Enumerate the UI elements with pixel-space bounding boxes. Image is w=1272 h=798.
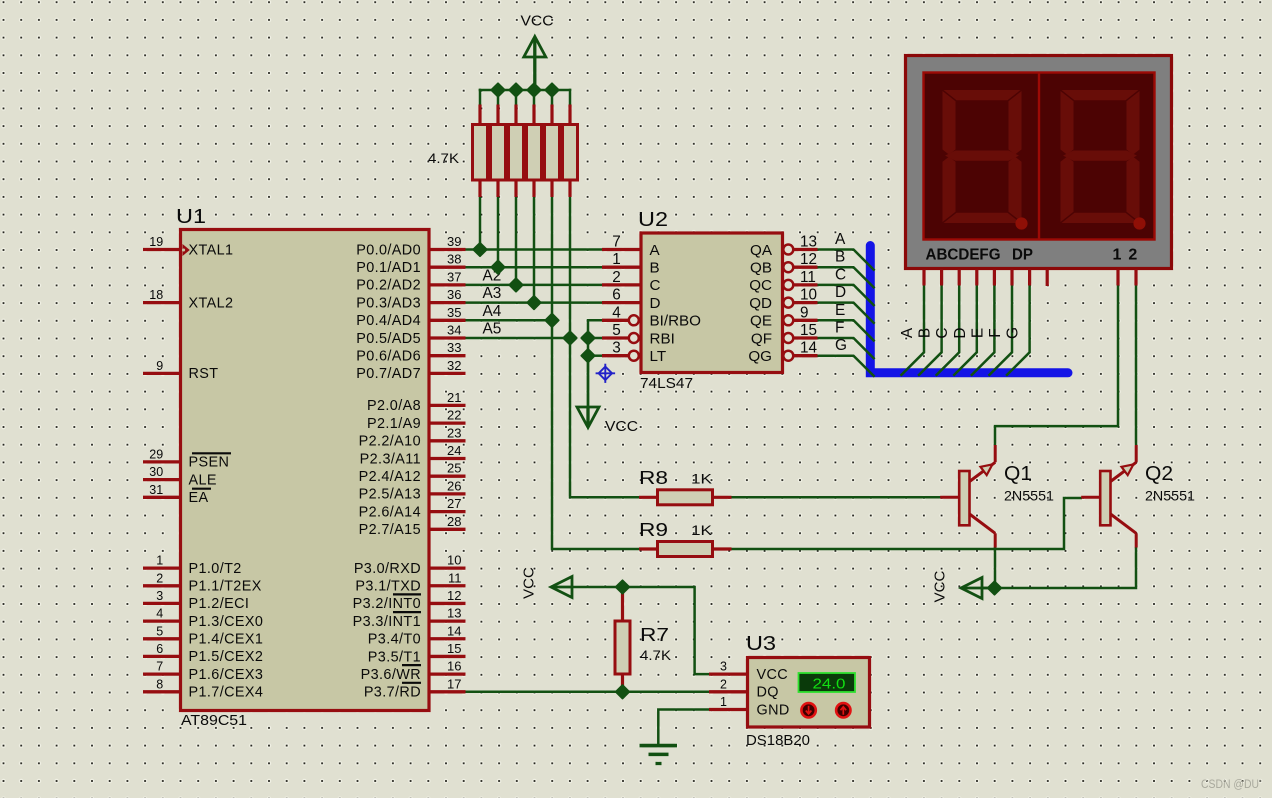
svg-text:17: 17	[447, 676, 461, 691]
pin 39 P0.0/AD0 stub	[429, 248, 466, 251]
svg-text:P2.1/A9: P2.1/A9	[367, 416, 421, 432]
wire pull-up column 2 down to P0.1	[497, 196, 500, 268]
svg-text:B: B	[650, 260, 660, 277]
svg-text:2N5551: 2N5551	[1004, 488, 1054, 504]
svg-text:G: G	[1005, 327, 1022, 339]
svg-text:15: 15	[447, 641, 461, 656]
svg-text:14: 14	[800, 340, 818, 357]
svg-text:B: B	[835, 249, 845, 266]
svg-text:2: 2	[1128, 247, 1137, 264]
svg-text:36: 36	[447, 287, 461, 302]
svg-text:31: 31	[149, 483, 163, 497]
svg-text:P0.5/AD5: P0.5/AD5	[356, 331, 421, 347]
pin 18 XTAL2 stub	[143, 301, 181, 304]
wire Q2 emitter to display pin 2	[1135, 285, 1138, 446]
pin 21 P2.0/A8 stub	[429, 404, 466, 407]
svg-text:4.7K: 4.7K	[640, 647, 672, 663]
svg-text:C: C	[934, 327, 951, 338]
pin 24 P2.3/A11 stub	[429, 457, 466, 460]
pin 9 RST stub	[143, 372, 181, 375]
svg-text:5: 5	[612, 322, 621, 339]
wire BI/RBO to vertical	[588, 320, 604, 408]
microcontroller U1 AT89C51 body	[181, 230, 430, 711]
svg-text:1K: 1K	[691, 471, 713, 487]
svg-text:12: 12	[447, 588, 461, 603]
overline INT1	[393, 611, 421, 613]
svg-text:9: 9	[800, 304, 809, 321]
wire RBI branch	[588, 337, 604, 340]
svg-text:3: 3	[720, 660, 727, 674]
wire pull-up column 1 down to P0.0	[479, 196, 482, 251]
svg-text:Q1: Q1	[1004, 463, 1032, 485]
pin 36 P0.3/AD3 stub	[429, 301, 466, 304]
svg-text:P3.2/INT0: P3.2/INT0	[353, 596, 421, 612]
wire U2 QC to bus	[817, 285, 875, 306]
svg-text:5: 5	[156, 624, 163, 638]
svg-text:4: 4	[156, 607, 163, 621]
decoder U2 74LS47 body	[641, 233, 783, 373]
pin 14 U2 QG stub	[794, 354, 818, 357]
pin 6 P1.5/CEX2 stub	[143, 655, 181, 658]
resistor RN6 4.7K body	[563, 125, 578, 181]
bubble U2 QC	[783, 280, 793, 290]
svg-text:13: 13	[800, 234, 817, 251]
pin 1 U2 B stub	[602, 266, 641, 269]
svg-text:DQ: DQ	[757, 685, 779, 701]
svg-text:QA: QA	[750, 242, 773, 259]
pin 5 U2 RBI stub	[602, 336, 629, 339]
pin 14 P3.4/T0 stub	[429, 637, 466, 640]
button U3 up	[836, 703, 850, 717]
wire U2 QF to bus	[817, 338, 875, 359]
svg-text:28: 28	[447, 514, 461, 529]
svg-text:P2.5/A13: P2.5/A13	[359, 487, 421, 503]
wire display segment A to bus	[901, 285, 925, 376]
svg-text:VCC: VCC	[757, 667, 789, 683]
bubble U2 QD	[783, 298, 793, 308]
svg-text:38: 38	[447, 252, 461, 267]
svg-text:P1.2/ECI: P1.2/ECI	[189, 596, 250, 612]
svg-text:1: 1	[156, 554, 163, 568]
svg-text:6: 6	[156, 642, 163, 656]
junction P0.0 pull-up	[473, 243, 486, 256]
svg-text:23: 23	[447, 425, 461, 440]
svg-text:39: 39	[447, 234, 461, 249]
pin 15 P3.5/T1 stub	[429, 655, 466, 658]
pin 1 U3 GND stub	[709, 708, 748, 711]
wire pull-up column 4 down to P0.3	[533, 196, 536, 304]
svg-text:RST: RST	[189, 366, 219, 382]
svg-text:P2.7/A15: P2.7/A15	[359, 522, 421, 538]
svg-text:VCC: VCC	[605, 418, 638, 435]
svg-text:3: 3	[612, 340, 621, 357]
pin 11 U2 QC stub	[794, 283, 818, 286]
pin 30 ALE stub	[143, 478, 181, 481]
svg-text:QF: QF	[751, 330, 772, 347]
svg-text:2: 2	[612, 269, 621, 286]
svg-text:P0.1/AD1: P0.1/AD1	[356, 260, 421, 276]
svg-text:11: 11	[800, 269, 816, 286]
svg-text:3: 3	[156, 589, 163, 603]
svg-text:10: 10	[800, 287, 817, 304]
pin 2 U2 C stub	[602, 283, 641, 286]
wire pull-up column 3 down to P0.2	[515, 196, 518, 286]
wire display segment G to bus	[1006, 285, 1030, 376]
wire resistor RN2 top lead upper	[497, 89, 500, 106]
svg-text:19: 19	[149, 235, 163, 249]
bubble U2 QE	[783, 315, 793, 325]
svg-text:4: 4	[612, 304, 621, 321]
svg-text:P3.7/RD: P3.7/RD	[364, 685, 421, 701]
pin XTAL1 clock arrow	[182, 244, 190, 256]
pin 4 U2 BI/RBO stub	[602, 319, 629, 322]
svg-text:P0.7/AD7: P0.7/AD7	[356, 366, 421, 382]
svg-text:9: 9	[156, 359, 163, 373]
bubble U2 QA	[783, 245, 793, 255]
svg-text:U1: U1	[176, 206, 206, 228]
wire U2 QE to bus	[817, 320, 875, 341]
svg-text:10: 10	[447, 553, 461, 568]
wire resistor RN3 top lead upper	[515, 89, 518, 106]
svg-text:A3: A3	[483, 285, 502, 302]
svg-text:35: 35	[447, 305, 461, 320]
pin 13 U2 QA stub	[794, 248, 818, 251]
svg-text:P0.0/AD0: P0.0/AD0	[356, 242, 421, 258]
svg-text:QG: QG	[748, 348, 772, 365]
display pin DP	[1046, 270, 1049, 287]
svg-text:P1.0/T2: P1.0/T2	[189, 561, 242, 577]
svg-text:ALE: ALE	[189, 472, 217, 488]
svg-text:GND: GND	[757, 702, 790, 718]
wire display segment E to bus	[971, 285, 995, 376]
svg-text:P3.4/T0: P3.4/T0	[368, 632, 421, 648]
wire display segment F to bus	[989, 285, 1013, 376]
pin 15 U2 QF stub	[794, 336, 818, 339]
svg-text:P2.2/A10: P2.2/A10	[359, 434, 421, 450]
svg-text:4.7K: 4.7K	[428, 150, 460, 166]
svg-text:1K: 1K	[691, 522, 713, 538]
pin 25 P2.4/A12 stub	[429, 475, 466, 478]
svg-text:A: A	[835, 231, 846, 248]
pin 2 U3 DQ stub	[709, 690, 748, 693]
svg-text:P0.4/AD4: P0.4/AD4	[356, 313, 421, 329]
svg-text:P1.6/CEX3: P1.6/CEX3	[189, 667, 264, 683]
wire resistor RN4 top lead upper	[533, 89, 536, 106]
resistor RN3 4.7K body	[509, 125, 524, 181]
wire P0.4 to node	[464, 319, 552, 322]
pin 3 U2 LT stub	[602, 354, 629, 357]
svg-text:F: F	[987, 328, 1004, 337]
svg-text:E: E	[969, 328, 986, 338]
pin 10 P3.0/RXD stub	[429, 566, 466, 569]
pin 7 P1.6/CEX3 stub	[143, 672, 181, 675]
power VCC top symbol	[524, 37, 546, 92]
transistor Q1 2N5551 body	[940, 445, 995, 548]
svg-text:P2.4/A12: P2.4/A12	[359, 469, 421, 485]
svg-text:EA: EA	[189, 490, 209, 506]
svg-text:P1.4/CEX1: P1.4/CEX1	[189, 632, 264, 648]
transistor Q2 2N5551 body	[1081, 445, 1136, 548]
pin 12 P3.2/INT0 stub	[429, 602, 466, 605]
svg-text:27: 27	[447, 496, 461, 511]
junction LT node	[581, 349, 594, 362]
svg-text:BI/RBO: BI/RBO	[650, 313, 702, 330]
junction P0.1 pull-up	[491, 261, 504, 274]
wire VCC to R7 and U3 VCC pin	[569, 587, 709, 674]
svg-text:VCC: VCC	[932, 570, 949, 602]
svg-text:13: 13	[447, 606, 461, 621]
wire U2 QD to bus	[817, 303, 875, 324]
svg-text:15: 15	[800, 322, 817, 339]
junction VCC rail	[527, 83, 540, 96]
display pin E	[993, 270, 996, 286]
pin 9 U2 QE stub	[794, 319, 818, 322]
svg-text:11: 11	[448, 570, 462, 585]
power VCC near U2 symbol	[577, 407, 599, 428]
wire R8 to Q1 base	[730, 496, 941, 499]
svg-text:25: 25	[447, 461, 461, 476]
svg-text:E: E	[835, 302, 845, 319]
svg-text:2: 2	[720, 677, 727, 691]
bubble U2 QG	[783, 351, 793, 361]
pin 31 EA stub	[143, 496, 181, 499]
svg-text:XTAL1: XTAL1	[189, 242, 234, 258]
svg-text:B: B	[917, 328, 934, 338]
bubble U2 BI/RBO	[629, 315, 639, 325]
overline INT0	[393, 593, 421, 595]
junction VCC rail	[491, 83, 504, 96]
display pin F	[1010, 270, 1013, 286]
pin 1 P1.0/T2 stub	[143, 566, 181, 569]
svg-text:QE: QE	[750, 313, 772, 330]
pin 6 U2 D stub	[602, 301, 641, 304]
svg-text:2N5551: 2N5551	[1145, 488, 1195, 504]
svg-text:32: 32	[447, 358, 461, 373]
display pin G	[1028, 270, 1031, 286]
overline WR	[402, 664, 421, 666]
svg-text:24.0: 24.0	[813, 676, 846, 692]
svg-text:P3.6/WR: P3.6/WR	[361, 667, 421, 683]
svg-text:2: 2	[156, 571, 163, 585]
digit 1 segments decimal point	[1015, 217, 1027, 229]
bubble U2 RBI	[629, 333, 639, 343]
digit 2 segments	[1061, 90, 1140, 223]
svg-text:P3.1/TXD: P3.1/TXD	[355, 579, 421, 595]
svg-text:ABCDEFG: ABCDEFG	[926, 247, 1001, 264]
junction R7 bottom DQ	[616, 685, 629, 698]
pin 29 PSEN stub	[143, 460, 181, 463]
svg-text:30: 30	[149, 465, 163, 479]
overline RD	[402, 682, 421, 684]
wire VCC rail to resistor pack	[479, 89, 572, 92]
pin 3 P1.2/ECI stub	[143, 602, 181, 605]
pin 17 P3.7/RD stub	[429, 690, 466, 693]
svg-text:R7: R7	[640, 624, 669, 645]
pin 32 P0.7/AD7 stub	[429, 372, 466, 375]
pin 11 P3.1/TXD stub	[429, 584, 466, 587]
svg-text:P0.2/AD2: P0.2/AD2	[356, 278, 421, 294]
pin 26 P2.5/A13 stub	[429, 492, 466, 495]
svg-text:26: 26	[447, 478, 461, 493]
display pin B	[940, 270, 943, 286]
pin 34 P0.5/AD5 stub	[429, 336, 466, 339]
resistor R9 1K body	[658, 542, 713, 557]
svg-text:37: 37	[447, 269, 461, 284]
svg-text:P0.3/AD3: P0.3/AD3	[356, 295, 421, 311]
wire resistor RN5 top lead upper	[551, 89, 554, 106]
svg-text:D: D	[835, 284, 846, 301]
svg-text:VCC: VCC	[521, 13, 554, 30]
junction VCC node Q1 Q2	[988, 581, 1001, 594]
svg-text:C: C	[835, 266, 846, 283]
pin 38 P0.1/AD1 stub	[429, 266, 466, 269]
svg-text:R9: R9	[639, 519, 668, 540]
svg-text:RBI: RBI	[650, 330, 675, 347]
wire Q1 emitter to display pin 1	[995, 285, 1118, 446]
svg-text:DS18B20: DS18B20	[746, 733, 810, 749]
pin 27 P2.6/A14 stub	[429, 510, 466, 513]
pin 5 P1.4/CEX1 stub	[143, 637, 181, 640]
wire pull-up column 6 down to R8	[570, 196, 640, 497]
svg-text:1: 1	[1113, 247, 1122, 264]
svg-text:U3: U3	[746, 633, 776, 655]
svg-text:29: 29	[149, 447, 163, 461]
junction P0.5 pull-up	[563, 331, 576, 344]
svg-text:16: 16	[447, 659, 461, 674]
digit 2 segments decimal point	[1133, 217, 1145, 229]
svg-text:DP: DP	[1012, 247, 1033, 264]
svg-text:G: G	[835, 337, 847, 354]
svg-text:7: 7	[156, 660, 163, 674]
svg-text:21: 21	[447, 390, 461, 405]
svg-text:12: 12	[800, 251, 817, 268]
wire LT branch	[588, 354, 604, 357]
svg-text:C: C	[650, 277, 661, 294]
svg-text:A4: A4	[483, 303, 502, 320]
svg-text:P1.5/CEX2: P1.5/CEX2	[189, 649, 264, 665]
overline PSEN	[192, 452, 231, 454]
wire resistor RN1 top lead upper	[479, 89, 482, 106]
wire P0.0 to U2 A	[464, 248, 602, 251]
pin 12 U2 QB stub	[794, 266, 818, 269]
svg-text:CSDN @DU': CSDN @DU'	[1201, 779, 1261, 791]
pin 16 P3.6/WR stub	[429, 672, 466, 675]
wire U3 GND to ground	[658, 710, 709, 745]
pin 10 U2 QD stub	[794, 301, 818, 304]
bubble U2 QF	[783, 333, 793, 343]
svg-text:6: 6	[612, 287, 621, 304]
pin 2 P1.1/T2EX stub	[143, 584, 181, 587]
wire U2 QA to bus	[817, 250, 875, 271]
resistor RN2 4.7K body	[491, 125, 506, 181]
wire P0.2 to U2 C	[464, 284, 602, 287]
display pin 1	[1116, 270, 1119, 286]
junction P0.3 pull-up	[527, 296, 540, 309]
ground symbol	[640, 746, 678, 764]
wire Q1 collector to VCC node	[994, 547, 997, 588]
junction R7 top	[616, 580, 629, 593]
display DS1 two-digit seven-segment body	[906, 56, 1172, 269]
svg-text:18: 18	[149, 288, 163, 302]
svg-text:PSEN: PSEN	[189, 455, 230, 471]
junction P0.2 pull-up	[509, 278, 522, 291]
resistor RN5 4.7K body	[545, 125, 560, 181]
pin 35 P0.4/AD4 stub	[429, 319, 466, 322]
wire resistor RN6 top lead upper	[569, 89, 572, 106]
overline EA	[192, 488, 211, 490]
wire display segment D to bus	[953, 285, 977, 376]
svg-text:LT: LT	[650, 348, 667, 365]
svg-text:AT89C51: AT89C51	[181, 713, 247, 729]
svg-text:1: 1	[720, 695, 727, 709]
svg-text:14: 14	[447, 623, 461, 638]
wire P0.1 to U2 B	[464, 266, 602, 269]
svg-text:P1.3/CEX0: P1.3/CEX0	[189, 614, 264, 630]
digit 1 segments	[943, 90, 1022, 223]
svg-text:33: 33	[447, 340, 461, 355]
svg-text:P1.1/T2EX: P1.1/T2EX	[189, 579, 262, 595]
svg-text:VCC: VCC	[521, 567, 538, 599]
svg-text:QD: QD	[749, 295, 772, 312]
pin 19 XTAL1 stub	[143, 248, 181, 251]
display LCD 24.0 readout	[799, 673, 856, 692]
wire R9 to Q2 base	[730, 498, 1082, 549]
power VCC near R7 symbol	[551, 577, 572, 598]
svg-text:8: 8	[156, 677, 163, 691]
svg-text:QB: QB	[750, 260, 772, 277]
svg-text:P0.6/AD6: P0.6/AD6	[356, 349, 421, 365]
svg-text:P2.0/A8: P2.0/A8	[367, 398, 421, 414]
pin 28 P2.7/A15 stub	[429, 528, 466, 531]
pin 22 P2.1/A9 stub	[429, 421, 466, 424]
svg-text:A: A	[650, 242, 661, 259]
svg-text:P3.5/T1: P3.5/T1	[368, 649, 421, 665]
svg-text:P3.3/INT1: P3.3/INT1	[353, 614, 421, 630]
wire P0.3 to U2 D	[464, 301, 602, 304]
svg-text:QC: QC	[749, 277, 772, 294]
pin 4 P1.3/CEX0 stub	[143, 619, 181, 622]
display pin 2	[1134, 270, 1137, 286]
button U3 down	[801, 703, 815, 717]
wire display segment C to bus	[936, 285, 960, 376]
svg-text:34: 34	[447, 323, 461, 338]
bubble U2 LT	[629, 351, 639, 361]
svg-text:R8: R8	[639, 467, 668, 488]
wire VCC node to Q2 collector	[975, 547, 1136, 588]
svg-text:Q2: Q2	[1145, 463, 1173, 485]
junction VCC rail	[509, 83, 522, 96]
svg-text:P3.0/RXD: P3.0/RXD	[354, 561, 421, 577]
resistor RN1 4.7K body	[473, 125, 488, 181]
wire P0.5 to node	[464, 337, 570, 340]
power VCC near Q1 Q2 symbol	[961, 578, 994, 599]
sensor U3 DS18B20 body	[748, 658, 870, 728]
wire U2 QG to bus	[817, 356, 875, 377]
wire U2 QB to bus	[817, 267, 875, 288]
pin 23 P2.2/A10 stub	[429, 439, 466, 442]
display pin C	[958, 270, 961, 286]
pin 13 P3.3/INT1 stub	[429, 619, 466, 622]
wire pull-up column 5 down to R9	[552, 196, 640, 549]
junction RBI node	[581, 331, 594, 344]
svg-text:D: D	[952, 327, 969, 338]
svg-text:P2.6/A14: P2.6/A14	[359, 504, 421, 520]
bubble U2 QB	[783, 262, 793, 272]
bus segment display to 74LS47	[870, 246, 1068, 373]
display pin A	[922, 270, 925, 286]
svg-text:U2: U2	[638, 209, 668, 231]
svg-text:24: 24	[447, 443, 461, 458]
